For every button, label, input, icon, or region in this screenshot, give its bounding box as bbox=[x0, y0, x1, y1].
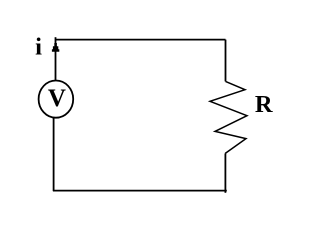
wire right vertical lower bbox=[224, 153, 226, 192]
svg-text:V: V bbox=[48, 85, 66, 112]
resistor R zigzag bbox=[210, 81, 247, 153]
svg-text:i: i bbox=[35, 34, 42, 61]
wire left vertical lower (source bottom to bottom wire) bbox=[53, 117, 55, 190]
svg-text:R: R bbox=[255, 91, 273, 118]
wire right vertical upper bbox=[225, 40, 227, 82]
wire bottom horizontal bbox=[53, 190, 227, 192]
wire left vertical upper (corner tick to source top) bbox=[55, 37, 57, 80]
voltage source V1 circle bbox=[39, 81, 74, 118]
wire top horizontal bbox=[55, 39, 225, 41]
current arrowhead (points up) bbox=[52, 43, 59, 52]
